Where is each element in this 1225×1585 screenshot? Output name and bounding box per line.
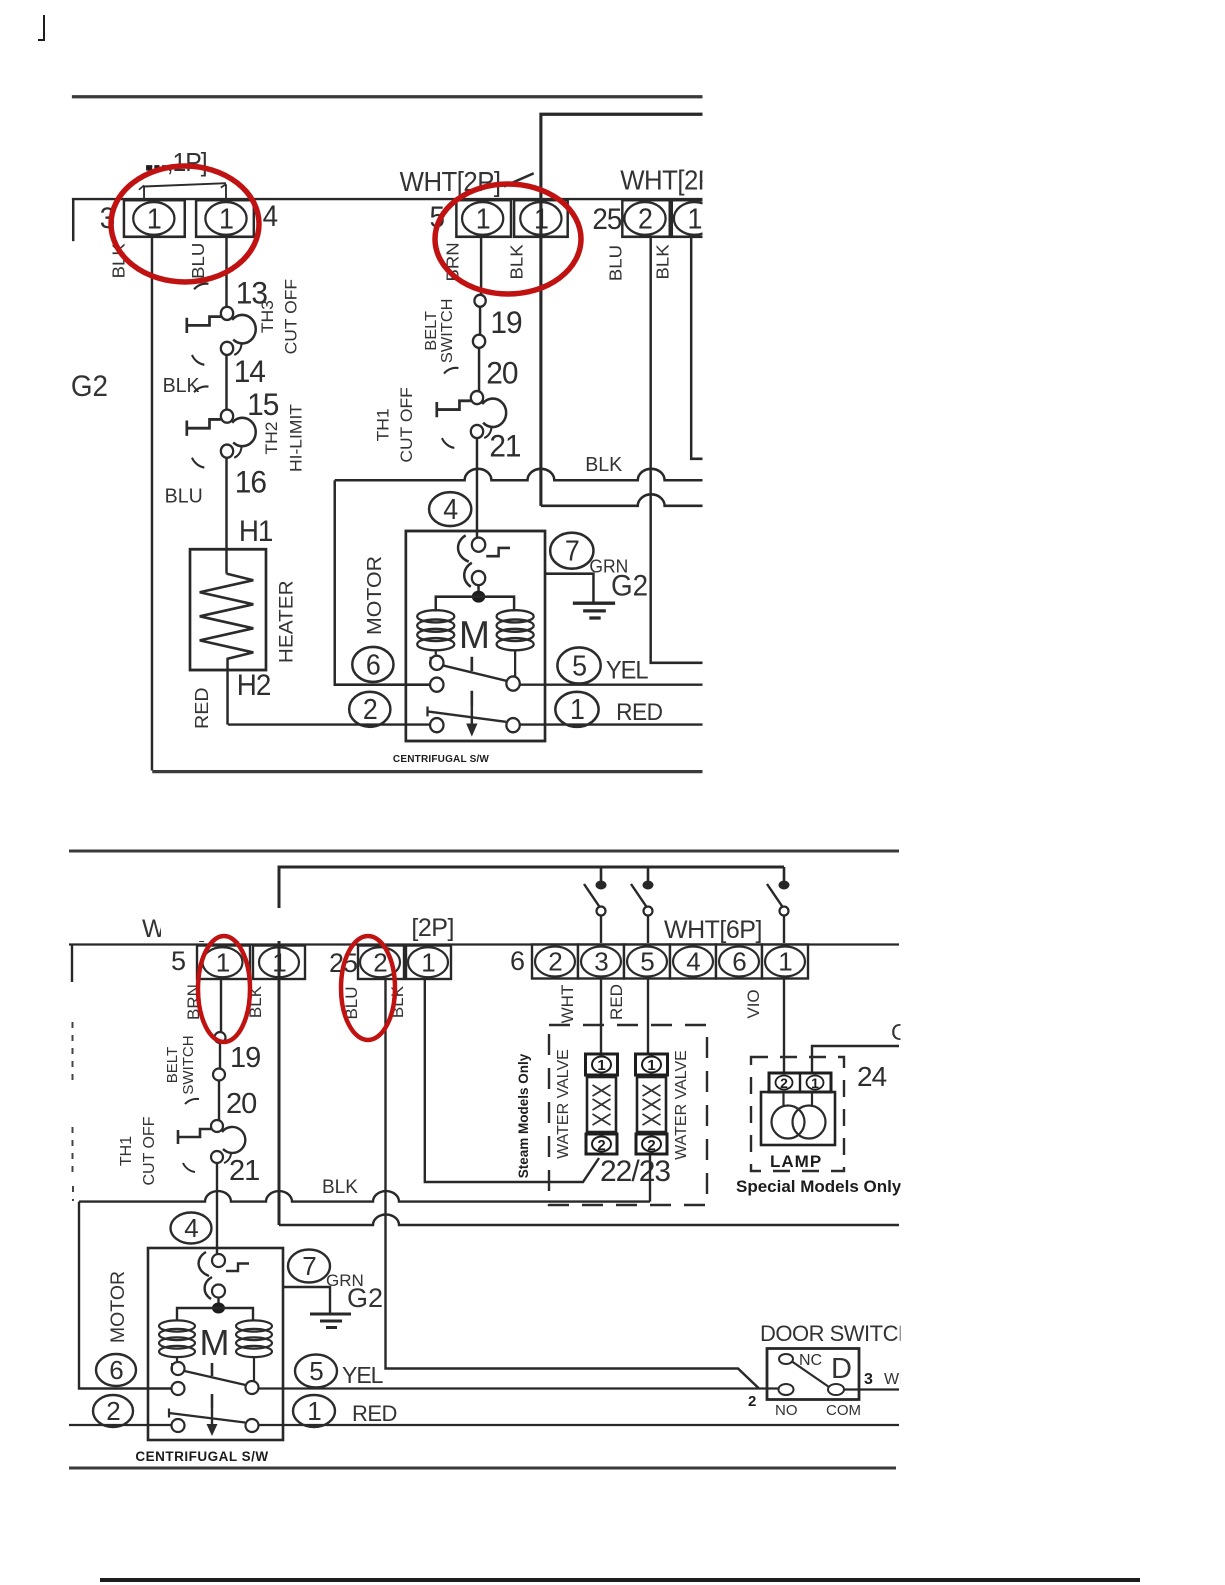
svg-text:CENTRIFUGAL S/W: CENTRIFUGAL S/W xyxy=(393,754,490,765)
svg-text:CENTRIFUGAL S/W: CENTRIFUGAL S/W xyxy=(135,1449,268,1464)
connector strip bracket (lower) xyxy=(71,945,73,983)
whiteout over connector labels xyxy=(161,908,413,941)
page bottom rule xyxy=(100,1578,1140,1582)
page corner mark xyxy=(38,15,44,40)
upper wiring diagram xyxy=(71,97,1202,772)
dashed pwb border remnant xyxy=(72,1022,75,1201)
annotation red ellipse (J1 pins) xyxy=(111,166,259,282)
annotation red ellipse (J2 pins) xyxy=(435,184,581,294)
annotation red ellipse (pin2 BLU) xyxy=(341,936,395,1040)
annotation red ellipse (pin1 BRN) xyxy=(198,936,250,1042)
lower wiring diagram xyxy=(0,851,921,1468)
